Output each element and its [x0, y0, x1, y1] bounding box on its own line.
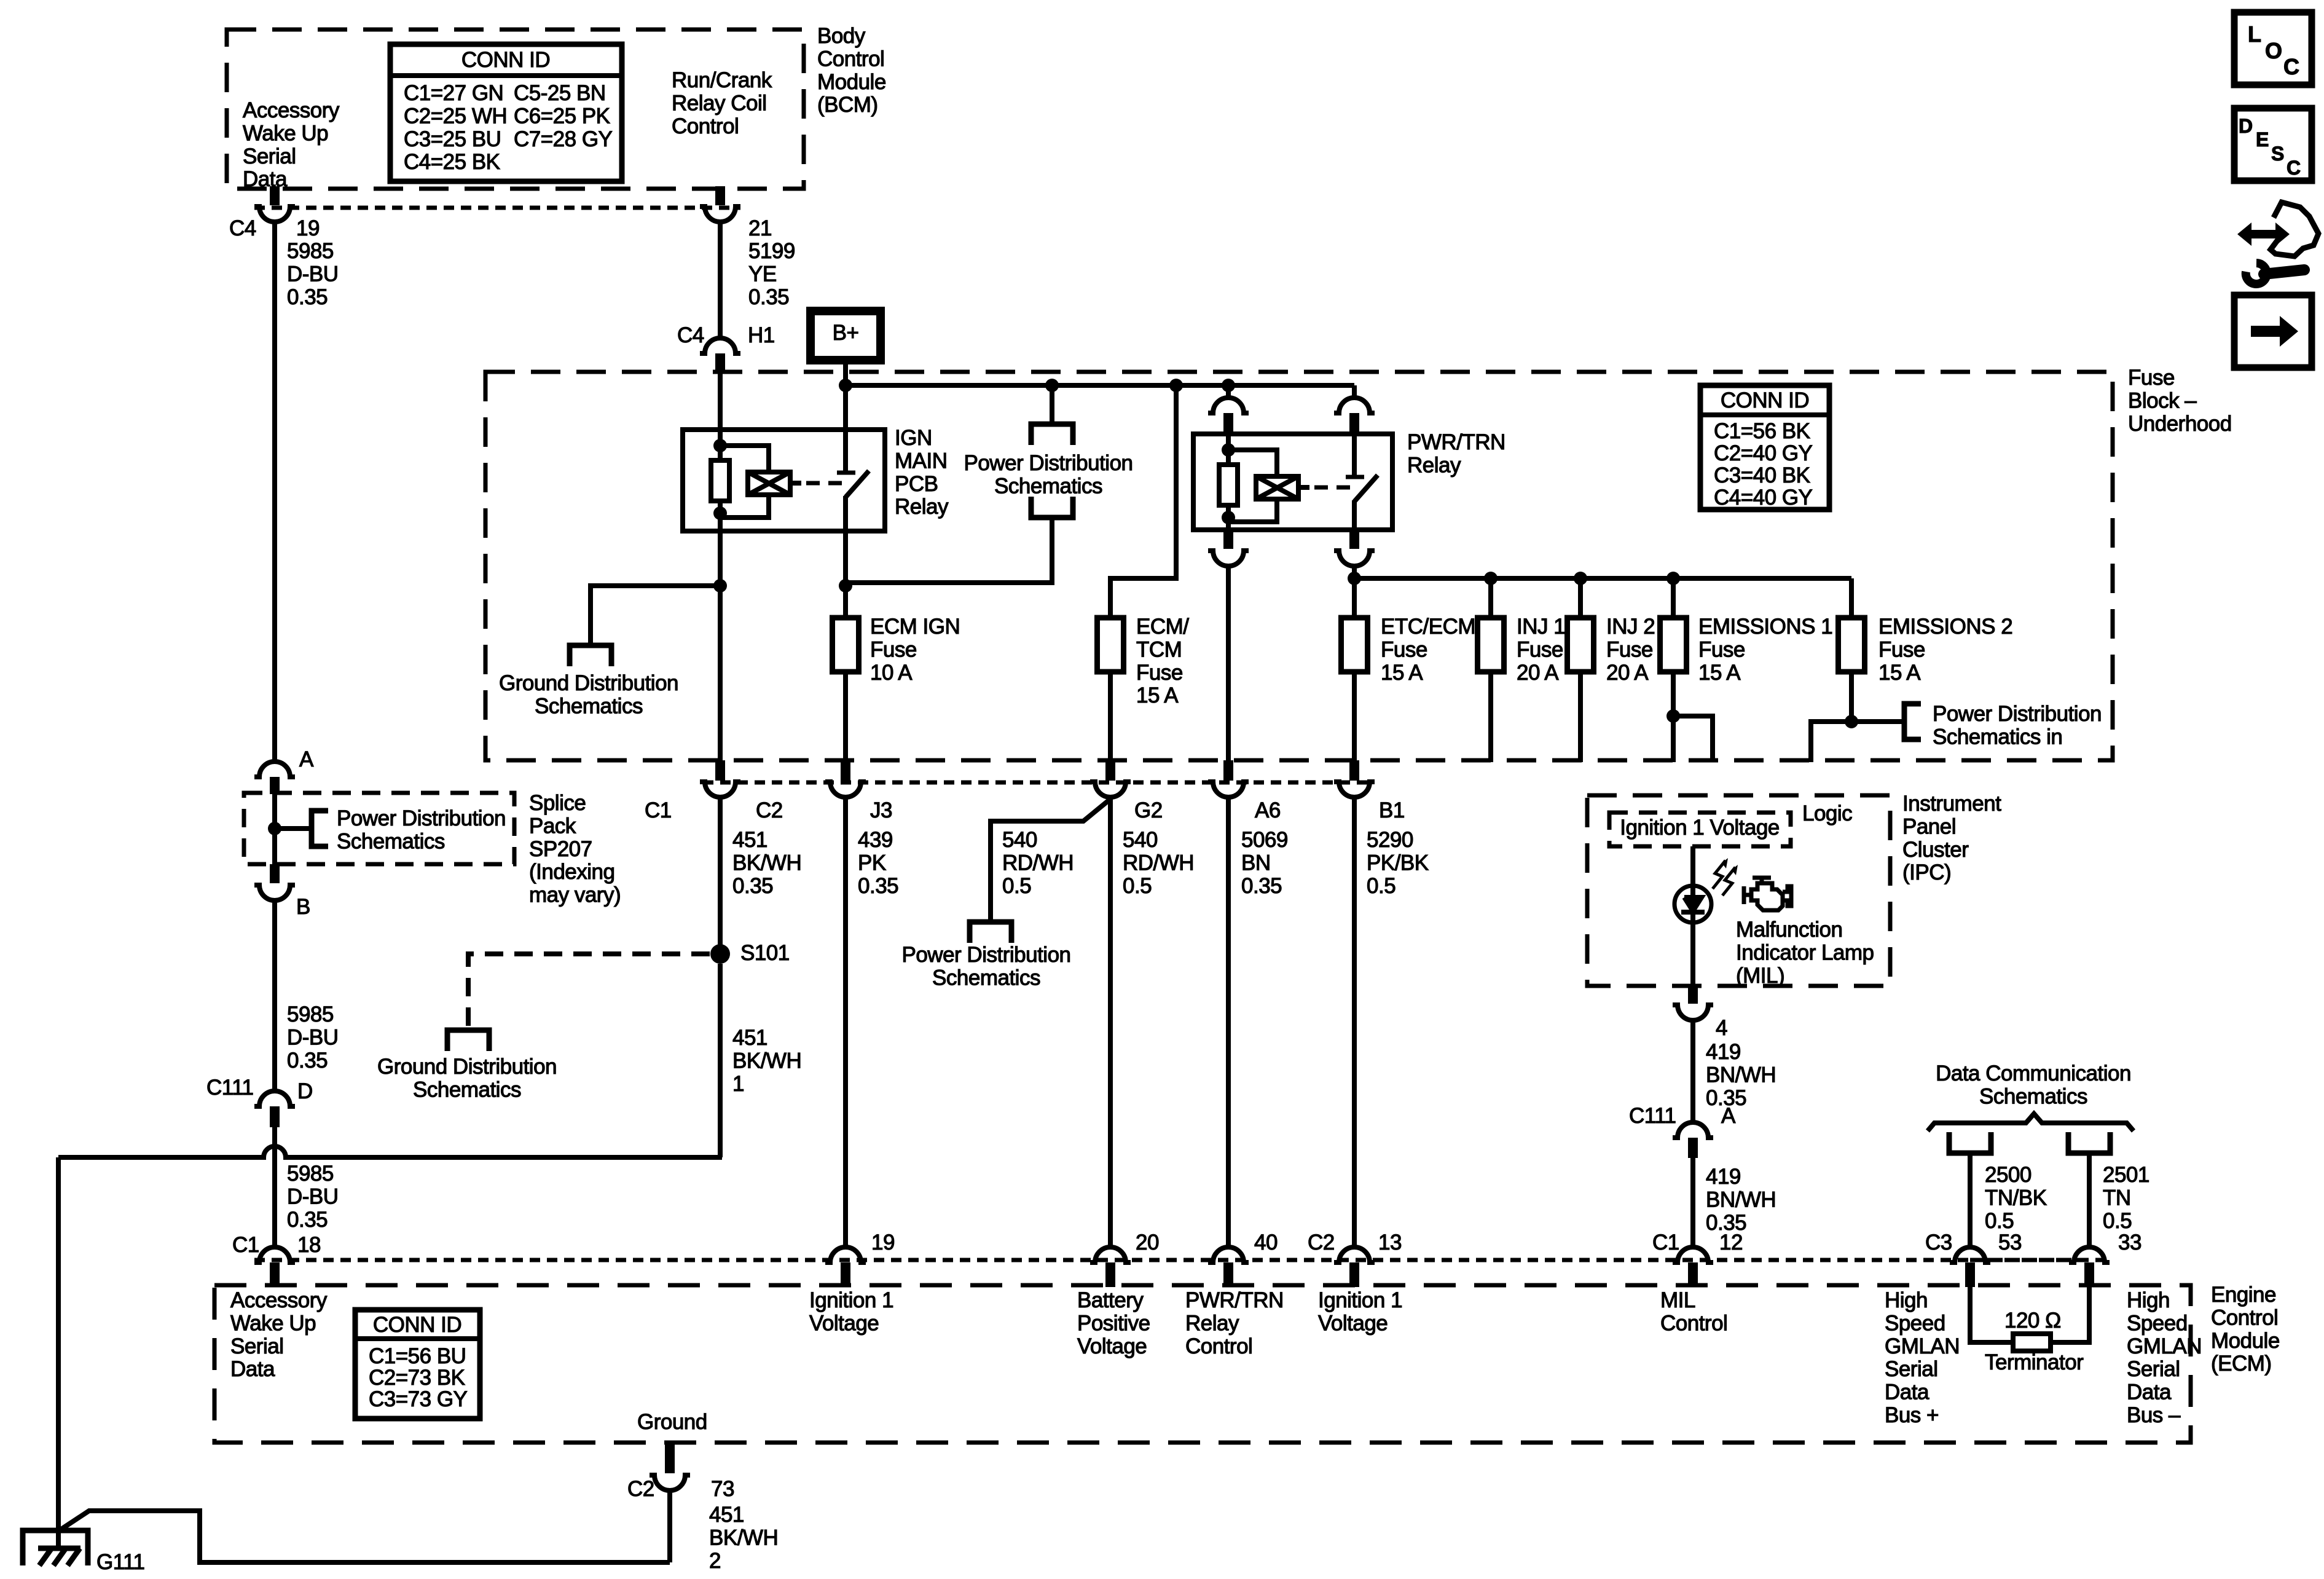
- junction B+ bus at IGN MAIN switch feed: [839, 379, 852, 392]
- svg-text:20 A: 20 A: [1606, 661, 1649, 685]
- wire relay coil path (IGN MAIN): [718, 430, 723, 531]
- connector arc PWR/TRN coil feed: [1208, 398, 1249, 413]
- svg-text:Indicator Lamp: Indicator Lamp: [1736, 940, 1874, 964]
- connector pin bar PWR/TRN switch feed: [1349, 413, 1359, 434]
- svg-text:0.35: 0.35: [858, 874, 898, 898]
- svg-text:Control: Control: [1185, 1334, 1252, 1358]
- svg-text:5985: 5985: [287, 1002, 334, 1026]
- svg-text:2501: 2501: [2103, 1163, 2149, 1187]
- switch fixed contact (IGN MAIN): [837, 471, 855, 475]
- wire 451 coil return to C1/C2 connector: [718, 531, 723, 760]
- connector pin bar ECM pin 18: [270, 1262, 280, 1287]
- svg-text:Accessory: Accessory: [243, 98, 340, 122]
- connector arc ECM pin 19: [825, 1247, 866, 1262]
- svg-text:Data: Data: [243, 167, 288, 191]
- dashed actuator link (PWR/TRN): [1314, 486, 1351, 490]
- svg-text:451: 451: [732, 1026, 767, 1050]
- svg-text:0.5: 0.5: [1985, 1209, 2014, 1233]
- wire 451 BK/WH to S101: [718, 797, 723, 952]
- svg-text:2: 2: [709, 1549, 721, 1573]
- svg-text:0.5: 0.5: [1123, 874, 1152, 898]
- label PWR/TRN Relay Control: [1185, 1288, 1284, 1358]
- svg-text:BK/WH: BK/WH: [732, 1049, 801, 1073]
- svg-text:53: 53: [1998, 1231, 2022, 1254]
- label PWR/TRN Relay: [1407, 430, 1505, 477]
- svg-text:Speed: Speed: [1885, 1311, 1945, 1335]
- svg-text:Voltage: Voltage: [1077, 1334, 1147, 1358]
- svg-text:Serial: Serial: [230, 1334, 283, 1358]
- svg-text:Pack: Pack: [529, 814, 576, 838]
- label 120 ohm: [2004, 1309, 2061, 1333]
- svg-text:TN: TN: [2103, 1186, 2131, 1210]
- wire switched B+ to ETC/ECM fuse: [1352, 566, 1357, 618]
- svg-text:C1: C1: [645, 798, 672, 822]
- junction B+ bus at PWR/TRN coil tap: [1222, 379, 1235, 392]
- svg-text:(Indexing: (Indexing: [529, 860, 614, 884]
- svg-text:Bus +: Bus +: [1885, 1403, 1939, 1427]
- svg-text:Module: Module: [817, 70, 886, 94]
- svg-text:Control: Control: [1660, 1311, 1727, 1335]
- svg-text:G111: G111: [96, 1550, 144, 1574]
- label C1 (ECM pin 12): [1652, 1231, 1679, 1254]
- svg-text:73: 73: [711, 1477, 734, 1501]
- wire relay coil path (PWR/TRN): [1226, 434, 1231, 530]
- svg-text:Ignition 1: Ignition 1: [809, 1288, 893, 1312]
- label C2 (fuse block): [756, 798, 783, 822]
- connector arc ECM pin 12: [1673, 1247, 1713, 1262]
- label Ignition 1 Voltage (pin 13): [1318, 1288, 1402, 1335]
- svg-text:C4=25 BK: C4=25 BK: [404, 150, 500, 174]
- off-page bracket Power Distribution Schematics in: [1904, 704, 1921, 739]
- svg-text:ECM IGN: ECM IGN: [870, 615, 960, 639]
- wire B+ bus inside fuse block: [846, 383, 1354, 388]
- svg-text:0.35: 0.35: [287, 1049, 328, 1073]
- off-page bracket GMLAN bus - source: [2068, 1132, 2110, 1153]
- wire 2500 TN/BK to ECM pin 53: [1968, 1153, 1973, 1248]
- svg-text:INJ 1: INJ 1: [1517, 615, 1565, 639]
- junction splice SP207: [268, 822, 281, 835]
- connector pin bar PWR/TRN switch out: [1349, 530, 1359, 549]
- connector pin bar ECM pin 19: [841, 1262, 850, 1287]
- fuse EMISSIONS 2 15A: [1839, 618, 1865, 672]
- wire label 5290 PK/BK 0.5: [1367, 828, 1429, 898]
- pin number 33 (ECM): [2118, 1231, 2141, 1254]
- svg-text:Malfunction: Malfunction: [1736, 918, 1842, 942]
- pin number 18 (ECM): [297, 1233, 321, 1257]
- connector arc ECM pin 13: [1334, 1247, 1375, 1262]
- connector cup J3 (fuse block bottom): [825, 782, 866, 797]
- connector arc ECM pin 53: [1950, 1247, 1990, 1262]
- connector pin bar C111 A: [1688, 1138, 1698, 1158]
- connector pin bar BCM pin 19: [270, 186, 280, 205]
- connector table CONN ID (ECM): [355, 1310, 480, 1419]
- pin number 20 (ECM): [1136, 1231, 1159, 1254]
- svg-text:RD/WH: RD/WH: [1002, 851, 1074, 875]
- wire stub to EMISSIONS 1 fuse: [1671, 578, 1676, 618]
- resistor IGN MAIN relay coil suppression: [711, 460, 729, 501]
- junction fuse bus at EMISSIONS 1: [1666, 572, 1680, 585]
- icon LOC box: [2234, 12, 2312, 85]
- svg-text:C2: C2: [1308, 1231, 1335, 1254]
- connector cup C1/C2 (fuse block bottom): [700, 782, 740, 797]
- svg-text:Fuse: Fuse: [1606, 637, 1653, 661]
- wire B+ feed to bus: [843, 360, 848, 385]
- svg-text:0.5: 0.5: [1002, 874, 1031, 898]
- svg-text:419: 419: [1706, 1040, 1741, 1064]
- pin number 19 (ECM): [871, 1231, 895, 1254]
- svg-text:EMISSIONS 2: EMISSIONS 2: [1878, 615, 2012, 639]
- pin number 19 (BCM): [296, 216, 320, 240]
- switch fixed contact (PWR/TRN): [1346, 475, 1364, 479]
- power symbol B+ box: [811, 311, 881, 360]
- svg-text:15 A: 15 A: [1878, 661, 1921, 685]
- svg-text:Splice: Splice: [529, 791, 586, 815]
- svg-text:Run/Crank: Run/Crank: [672, 68, 772, 92]
- connector face dotted line (BCM): [254, 206, 740, 210]
- svg-text:PK/BK: PK/BK: [1367, 851, 1429, 875]
- label High Speed GMLAN Serial Data Bus -: [2127, 1288, 2202, 1427]
- svg-text:C4: C4: [677, 323, 704, 347]
- label Splice Pack SP207: [529, 791, 621, 907]
- svg-text:C3=40 BK: C3=40 BK: [1714, 463, 1810, 487]
- label C4 (connector H1): [677, 323, 704, 347]
- svg-text:BK/WH: BK/WH: [709, 1526, 778, 1549]
- svg-text:SP207: SP207: [529, 837, 592, 861]
- ground symbol G111: [23, 1530, 88, 1565]
- module IPC dashed box: [1587, 795, 1890, 986]
- connector arc ECM pin 18: [254, 1247, 295, 1262]
- svg-text:2500: 2500: [1985, 1163, 2032, 1187]
- connector pin bar ECM pin 53: [1965, 1262, 1975, 1287]
- svg-text:Control: Control: [2211, 1305, 2278, 1329]
- svg-text:B+: B+: [833, 321, 859, 345]
- connector face dotted line (fuse block bottom): [703, 781, 1370, 785]
- label Ground Distribution Schematics (S101): [377, 1055, 557, 1101]
- junction relay coil top (PWR/TRN): [1222, 443, 1235, 457]
- wire switch output inside relay (IGN MAIN): [843, 496, 848, 531]
- svg-text:INJ 2: INJ 2: [1606, 615, 1655, 639]
- indicator lamp MIL (LED symbol): [1674, 886, 1711, 923]
- svg-text:MAIN: MAIN: [895, 449, 948, 473]
- svg-text:Schematics in: Schematics in: [1933, 725, 2062, 749]
- connector pin bar IPC pin 4: [1688, 986, 1698, 1004]
- svg-text:A6: A6: [1255, 798, 1281, 822]
- wire to power distribution in bracket: [1851, 719, 1904, 724]
- pin number 21 (BCM): [748, 216, 772, 240]
- svg-text:CONN ID: CONN ID: [1721, 388, 1809, 412]
- wire 5985 D-BU from B to C111 D: [272, 900, 277, 1093]
- wire 540 from ECM/TCM fuse to G2: [1108, 672, 1113, 760]
- label Power Distribution Schematics (540 branch): [902, 943, 1071, 990]
- svg-text:C3=73 GY: C3=73 GY: [369, 1387, 468, 1411]
- connector table CONN ID (fuse block): [1700, 385, 1829, 510]
- svg-text:D: D: [2239, 115, 2253, 137]
- wire tap to power distribution bracket: [1050, 385, 1054, 424]
- connector pin bar C111 D: [270, 1106, 280, 1127]
- wire B+ tap to ECM/TCM fuse: [1110, 385, 1176, 618]
- off-page bracket Ground Distribution Schematics (S101): [447, 1030, 489, 1051]
- label Accessory Wake Up Serial Data (BCM): [243, 98, 340, 191]
- svg-text:O: O: [2265, 38, 2282, 63]
- svg-text:Instrument: Instrument: [1902, 792, 2001, 816]
- coil solenoid symbol (IGN MAIN): [748, 472, 790, 495]
- off-page bracket power distribution (bottom): [1031, 497, 1073, 518]
- wire switch feed from bus (IGN MAIN): [843, 385, 848, 473]
- wire 451 BK/WH 2 run to G111: [58, 1511, 670, 1562]
- svg-text:Data: Data: [1885, 1380, 1929, 1404]
- label INJ 2 Fuse 20 A: [1606, 615, 1655, 685]
- svg-text:G2: G2: [1134, 798, 1163, 822]
- svg-text:D-BU: D-BU: [287, 262, 339, 286]
- svg-text:L: L: [2248, 22, 2261, 47]
- svg-text:C: C: [2283, 54, 2299, 79]
- module ECM dashed box: [214, 1285, 2191, 1443]
- svg-text:Fuse: Fuse: [1517, 637, 1563, 661]
- svg-text:5290: 5290: [1367, 828, 1413, 852]
- wire 5290 PK/BK from B1 to ECM pin 13: [1352, 797, 1357, 1248]
- connector pin bar ECM pin 20: [1105, 1262, 1115, 1287]
- connector pin bar B1 (fuse block bottom): [1349, 760, 1359, 781]
- wire corner to EMISSIONS 2 fuse: [1849, 578, 1854, 618]
- label C111 (left column): [206, 1076, 253, 1100]
- label C2 (ECM pin 13): [1308, 1231, 1335, 1254]
- svg-text:BN/WH: BN/WH: [1706, 1187, 1776, 1211]
- svg-text:C2: C2: [627, 1477, 654, 1501]
- fuse ETC/ECM 15A: [1341, 618, 1368, 672]
- svg-text:19: 19: [871, 1231, 895, 1254]
- wire coil stub (IGN MAIN): [790, 481, 801, 486]
- svg-text:C4=40 GY: C4=40 GY: [1714, 486, 1813, 510]
- table col1 (BCM CONN ID): [404, 81, 507, 174]
- svg-text:ECM/: ECM/: [1136, 615, 1189, 639]
- svg-text:18: 18: [297, 1233, 321, 1257]
- svg-text:5985: 5985: [287, 239, 334, 263]
- svg-text:D: D: [297, 1079, 313, 1103]
- connector cup PWR/TRN coil out: [1208, 551, 1249, 566]
- svg-text:Ground Distribution: Ground Distribution: [377, 1055, 557, 1079]
- svg-text:Relay: Relay: [895, 495, 949, 519]
- wire EMISSIONS 1 fuse output to box edge: [1671, 672, 1676, 762]
- label B: [296, 895, 310, 919]
- connector cup B: [254, 885, 295, 900]
- junction B+ bus at power distribution tap: [1045, 379, 1059, 392]
- svg-text:C5-25 BN: C5-25 BN: [514, 81, 606, 105]
- svg-text:(ECM): (ECM): [2211, 1352, 2272, 1376]
- svg-text:Logic: Logic: [1802, 801, 1852, 825]
- wire label 540 RD/WH 0.5 (G2): [1123, 828, 1194, 898]
- svg-text:Fuse: Fuse: [1136, 661, 1183, 685]
- svg-text:C1: C1: [1652, 1231, 1679, 1254]
- dashed actuator link (IGN MAIN): [806, 481, 843, 486]
- svg-text:Speed: Speed: [2127, 1311, 2188, 1335]
- label Terminator: [1985, 1350, 2084, 1374]
- brace (data communication schematics): [1928, 1114, 2134, 1131]
- engine icon (MIL): [1744, 878, 1791, 910]
- svg-text:Fuse: Fuse: [1878, 637, 1925, 661]
- svg-text:0.5: 0.5: [1367, 874, 1396, 898]
- wire run/crank into fuse block to IGN MAIN relay: [718, 374, 723, 431]
- wire 419 BN/WH from C111 A to ECM pin 12: [1690, 1158, 1695, 1248]
- connector pin bar J3 (fuse block bottom): [841, 760, 850, 781]
- resistor PWR/TRN relay coil suppression: [1219, 465, 1238, 505]
- svg-text:Body: Body: [817, 24, 866, 48]
- label Engine Control Module (ECM): [2211, 1283, 2280, 1376]
- svg-text:Battery: Battery: [1077, 1288, 1144, 1312]
- table rows (FB CONN ID): [1714, 419, 1813, 510]
- connector arc C111 D: [254, 1091, 295, 1106]
- svg-text:PCB: PCB: [895, 472, 938, 496]
- wire label 2501 TN 0.5: [2103, 1163, 2149, 1233]
- coil solenoid symbol (PWR/TRN): [1256, 476, 1298, 499]
- wire 419 BN/WH from IPC to C111 A: [1690, 1020, 1695, 1124]
- label J3: [870, 798, 892, 822]
- svg-text:(IPC): (IPC): [1902, 860, 1951, 884]
- pin number 53 (ECM): [1998, 1231, 2022, 1254]
- wire label 451 BK/WH 1: [732, 1026, 801, 1096]
- label Fuse Block - Underhood: [2128, 366, 2232, 436]
- svg-text:Fuse: Fuse: [870, 637, 917, 661]
- svg-text:C4: C4: [229, 216, 256, 240]
- junction B+ bus at ECM/TCM fuse tap: [1169, 379, 1183, 392]
- label C1 (ECM pin 18): [232, 1233, 259, 1257]
- svg-text:Schematics: Schematics: [932, 966, 1040, 990]
- connector arc C111 A: [1673, 1122, 1713, 1138]
- svg-text:C3=25 BU: C3=25 BU: [404, 127, 501, 151]
- svg-text:Relay Coil: Relay Coil: [672, 91, 767, 115]
- svg-text:B: B: [296, 895, 310, 919]
- wire EMISSIONS 2 fuse output: [1849, 672, 1854, 722]
- label Ignition 1 Voltage (IPC logic): [1620, 816, 1780, 840]
- connector table CONN ID (BCM): [390, 44, 622, 181]
- svg-text:0.35: 0.35: [287, 1208, 328, 1232]
- svg-text:20: 20: [1136, 1231, 1159, 1254]
- wire bus corner to PWR/TRN switch connector: [1352, 385, 1357, 399]
- wire label 5985 D-BU 0.35 (middle): [287, 1002, 339, 1073]
- label Power Distribution Schematics (bus): [964, 451, 1133, 498]
- svg-text:D-BU: D-BU: [287, 1184, 339, 1208]
- connector pin bar BCM pin 21: [715, 186, 725, 205]
- label B1: [1379, 798, 1405, 822]
- relay PWR/TRN box: [1193, 434, 1392, 530]
- svg-text:Ground: Ground: [637, 1410, 707, 1434]
- wire 540 tap to power distribution bracket: [991, 799, 1110, 922]
- junction relay coil bottom (IGN MAIN): [713, 506, 727, 520]
- svg-text:Control: Control: [672, 114, 739, 138]
- svg-text:S101: S101: [740, 941, 790, 965]
- wire coil branch bottom (IGN MAIN): [720, 495, 769, 518]
- svg-text:Ignition 1 Voltage: Ignition 1 Voltage: [1620, 816, 1780, 840]
- wire label 5985 D-BU 0.35 (lower): [287, 1162, 339, 1232]
- svg-text:C2=25 WH: C2=25 WH: [404, 104, 507, 128]
- label Ground Distribution Schematics (fuse block): [499, 671, 678, 718]
- label ECM/TCM Fuse 15 A: [1136, 615, 1189, 707]
- connector pin bar A: [270, 777, 280, 794]
- svg-text:Accessory: Accessory: [230, 1288, 328, 1312]
- label C1 (fuse block): [645, 798, 672, 822]
- splice S101: [710, 944, 730, 964]
- connector pin bar ECM pin 33: [2084, 1262, 2094, 1287]
- svg-text:540: 540: [1123, 828, 1158, 852]
- connector pin bar ECM pin 40: [1223, 1262, 1233, 1287]
- label Battery Positive Voltage: [1077, 1288, 1150, 1358]
- connector pin bar ECM pin 13: [1349, 1262, 1359, 1287]
- svg-text:Voltage: Voltage: [809, 1311, 879, 1335]
- svg-text:C1=56 BU: C1=56 BU: [369, 1344, 466, 1368]
- svg-text:C2=73 BK: C2=73 BK: [369, 1366, 465, 1390]
- svg-text:Wake Up: Wake Up: [230, 1311, 316, 1335]
- junction EMISSIONS 1 output branch: [1666, 709, 1680, 723]
- svg-text:Block –: Block –: [2128, 388, 2197, 412]
- connector arc PWR/TRN switch feed: [1334, 398, 1375, 413]
- connector pin bar G2 (fuse block bottom): [1105, 760, 1115, 781]
- svg-text:Fuse: Fuse: [1698, 637, 1745, 661]
- svg-text:BN: BN: [1241, 851, 1271, 875]
- svg-text:Relay: Relay: [1407, 453, 1461, 477]
- svg-text:Power Distribution: Power Distribution: [337, 806, 506, 830]
- svg-text:Relay: Relay: [1185, 1311, 1239, 1335]
- icon forward arrow box: [2234, 295, 2312, 368]
- table title CONN ID (ECM): [373, 1313, 461, 1337]
- svg-text:BK/WH: BK/WH: [732, 851, 801, 875]
- wire coil branch top (IGN MAIN): [720, 446, 769, 472]
- label D: [297, 1079, 313, 1103]
- svg-text:451: 451: [709, 1503, 744, 1527]
- label A6: [1255, 798, 1281, 822]
- fuse ECM/TCM 15A: [1097, 618, 1124, 672]
- wire 451 BK/WH 1 from S101 down: [718, 964, 723, 1157]
- wire label 419 BN/WH 0.35 (lower): [1706, 1165, 1776, 1235]
- connector arc A (splice pack): [254, 762, 295, 777]
- svg-text:C111: C111: [206, 1076, 253, 1100]
- wire 5069 BN from A6 to ECM pin 40: [1226, 797, 1231, 1248]
- svg-text:15 A: 15 A: [1698, 661, 1741, 685]
- wire terminator to ECM pin 33: [2051, 1287, 2089, 1342]
- connector cup BCM pin 21: [700, 207, 740, 222]
- svg-text:Terminator: Terminator: [1985, 1350, 2084, 1374]
- label C111 (MIL column): [1629, 1104, 1676, 1128]
- svg-text:Engine: Engine: [2211, 1283, 2276, 1307]
- wire 5985 D-BU from C111 D to ECM pin 18: [272, 1127, 277, 1248]
- connector cup ECM ground C2-73: [650, 1475, 690, 1490]
- label ETC/ECM Fuse 15 A: [1381, 615, 1475, 685]
- svg-text:0.5: 0.5: [2103, 1209, 2132, 1233]
- wire switch output to ECM IGN fuse: [843, 531, 848, 618]
- pin number 4 (IPC): [1716, 1016, 1727, 1040]
- label C2 (ground): [627, 1477, 654, 1501]
- svg-text:may vary): may vary): [529, 883, 621, 907]
- svg-text:10 A: 10 A: [870, 661, 913, 685]
- off-page bracket Power Distribution Schematics (540 branch): [970, 922, 1011, 943]
- wire 5199 YE from BCM pin 21 to C4 H1: [718, 222, 723, 338]
- label Instrument Panel Cluster (IPC): [1902, 792, 2001, 884]
- svg-text:Fuse: Fuse: [2128, 366, 2175, 390]
- wire label 451 BK/WH 2: [709, 1503, 778, 1573]
- wire 439 PK from J3 to ECM pin 19: [843, 797, 848, 1248]
- wire ground lead to G111: [56, 1157, 61, 1548]
- wire 5985 D-BU from BCM pin 19 to connector A: [272, 222, 277, 764]
- connector face dotted line (ECM): [254, 1258, 2110, 1262]
- connector cup PWR/TRN switch out: [1334, 551, 1375, 566]
- connector pin bar PWR/TRN coil feed: [1223, 413, 1233, 434]
- svg-text:High: High: [1885, 1288, 1928, 1312]
- svg-text:5069: 5069: [1241, 828, 1288, 852]
- svg-text:A: A: [1721, 1104, 1736, 1128]
- svg-text:C2=40 GY: C2=40 GY: [1714, 441, 1813, 465]
- wire label 419 BN/WH 0.35 (upper): [1706, 1040, 1776, 1110]
- pin number 73: [711, 1477, 734, 1501]
- label MIL Control: [1660, 1288, 1727, 1335]
- off-page bracket Power Distribution Schematics (SP207): [312, 811, 328, 846]
